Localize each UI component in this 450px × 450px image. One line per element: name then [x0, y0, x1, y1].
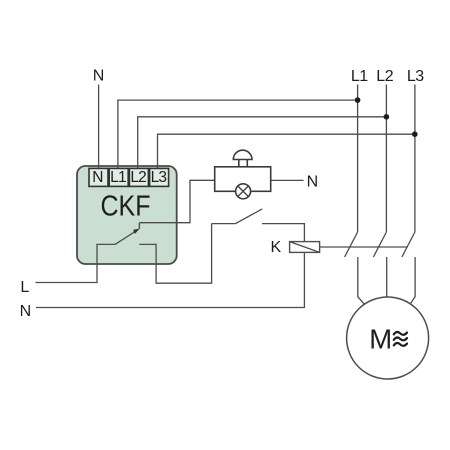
- contactor contact blade 1: [345, 232, 358, 257]
- wire L2 phase vertical: [385, 85, 387, 233]
- signal lamp circle: [236, 184, 251, 199]
- svg-text:L2: L2: [130, 169, 146, 186]
- relay coil K body: [290, 242, 320, 253]
- terminal L3 box: [150, 168, 169, 186]
- pushbutton dome: [233, 150, 252, 159]
- terminal L1 box: [109, 168, 128, 186]
- svg-text:L2: L2: [376, 68, 393, 85]
- wire L input to CKF contact left leg: [36, 244, 116, 282]
- motor lead 1: [358, 257, 364, 304]
- wire L1 from terminal up and right to bus: [118, 100, 358, 168]
- svg-text:N: N: [20, 303, 32, 320]
- pushbutton-lamp assembly body: [215, 167, 271, 192]
- wire L2 from terminal up and right to bus: [138, 117, 387, 169]
- wire switch S to coil K top: [262, 224, 304, 242]
- wire lamp assembly to N: [271, 179, 304, 181]
- pushbutton stem: [239, 160, 248, 167]
- motor 3-phase waves: [394, 332, 407, 346]
- wire L1 phase vertical: [357, 85, 359, 233]
- svg-text:L3: L3: [407, 68, 424, 85]
- motor lead 2: [386, 257, 388, 297]
- contactor contact blade 2: [373, 232, 386, 257]
- junction dot L1: [355, 97, 361, 103]
- svg-text:N: N: [92, 169, 103, 186]
- svg-text:L: L: [20, 279, 29, 296]
- junction dot L2: [384, 114, 390, 120]
- switch S contact: [212, 209, 263, 224]
- relay CKF body: [77, 166, 177, 264]
- wire L3 from terminal up and right to bus: [158, 134, 415, 168]
- terminal N box: [89, 168, 108, 186]
- relay coil K diagonal: [290, 242, 320, 253]
- wire N bottom run to coil K: [36, 252, 304, 307]
- wire L3 phase vertical: [414, 85, 416, 233]
- motor lead 3: [411, 257, 415, 303]
- svg-text:CKF: CKF: [101, 191, 151, 223]
- svg-text:N: N: [93, 68, 105, 85]
- contactor contact blade 3: [402, 232, 415, 257]
- motor M circle: [347, 297, 429, 379]
- svg-text:L3: L3: [151, 169, 167, 186]
- svg-text:M: M: [369, 324, 392, 355]
- svg-text:L1: L1: [351, 68, 368, 85]
- signal lamp cross: [238, 186, 249, 197]
- svg-text:N: N: [307, 173, 319, 190]
- junction dot L3: [412, 131, 418, 137]
- svg-text:K: K: [271, 239, 282, 256]
- CKF internal contact blade: [115, 223, 139, 245]
- CKF contact arrow head: [133, 229, 140, 234]
- wire coil K to contact linkage: [320, 246, 407, 248]
- wire N supply drop to terminal N: [98, 85, 100, 169]
- svg-text:L1: L1: [110, 169, 126, 186]
- terminal L2 box: [129, 168, 148, 186]
- wire CKF contact common out to lamp assembly: [139, 180, 214, 222]
- wire CKF contact right leg to switch S: [139, 224, 211, 284]
